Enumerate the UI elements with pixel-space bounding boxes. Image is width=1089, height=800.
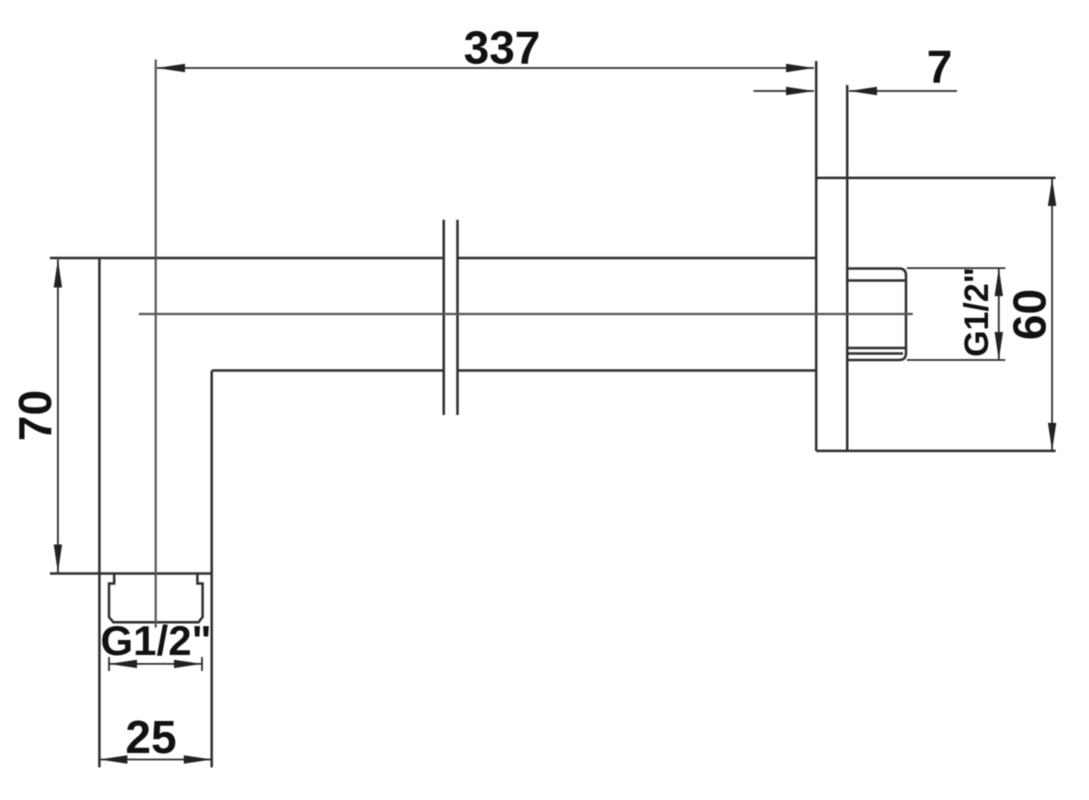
svg-text:337: 337 (464, 22, 541, 74)
svg-text:G1/2": G1/2" (101, 617, 212, 664)
svg-text:70: 70 (9, 390, 61, 441)
svg-text:G1/2": G1/2" (958, 267, 996, 357)
svg-text:7: 7 (927, 41, 953, 93)
svg-text:60: 60 (1004, 289, 1056, 340)
svg-text:25: 25 (125, 711, 176, 763)
